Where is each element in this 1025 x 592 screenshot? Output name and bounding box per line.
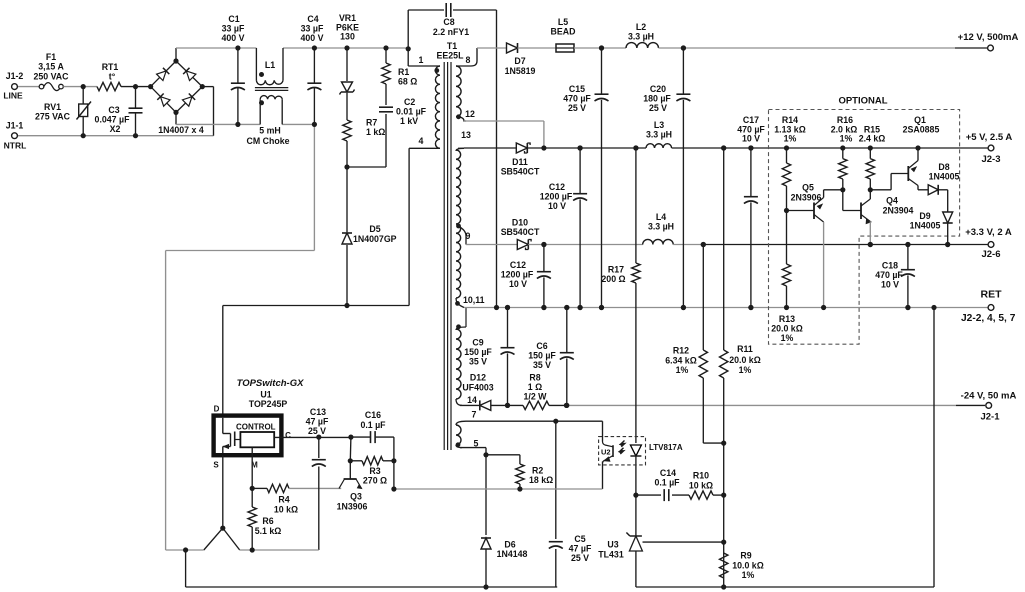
svg-text:R9: R9: [740, 551, 751, 561]
svg-text:D: D: [214, 405, 220, 414]
svg-text:+5 V, 2.5 A: +5 V, 2.5 A: [966, 132, 1013, 143]
svg-text:2N3906: 2N3906: [791, 193, 822, 203]
svg-text:L5: L5: [558, 17, 568, 27]
svg-text:5: 5: [474, 439, 479, 449]
svg-text:1/2 W: 1/2 W: [524, 392, 548, 402]
svg-text:Q4: Q4: [886, 196, 898, 206]
svg-text:35 V: 35 V: [533, 360, 551, 370]
svg-text:1N4007 x 4: 1N4007 x 4: [158, 125, 204, 135]
svg-text:R17: R17: [608, 265, 624, 275]
svg-text:C13: C13: [310, 407, 326, 417]
svg-text:2.2 nFY1: 2.2 nFY1: [433, 27, 469, 37]
svg-text:1: 1: [419, 55, 424, 65]
svg-text:C2: C2: [404, 97, 415, 107]
svg-text:C9: C9: [472, 338, 483, 348]
svg-text:14: 14: [467, 395, 477, 405]
svg-text:1%: 1%: [840, 134, 853, 144]
svg-text:R2: R2: [532, 466, 543, 476]
svg-text:OPTIONAL: OPTIONAL: [838, 96, 887, 107]
svg-text:C17: C17: [743, 115, 759, 125]
svg-text:+3.3 V, 2 A: +3.3 V, 2 A: [965, 227, 1012, 238]
svg-text:35 V: 35 V: [469, 357, 487, 367]
svg-text:10 V: 10 V: [742, 134, 760, 144]
svg-text:C18: C18: [882, 261, 898, 271]
svg-text:1%: 1%: [739, 365, 752, 375]
svg-text:D8: D8: [938, 162, 949, 172]
svg-text:R10: R10: [693, 471, 709, 481]
svg-text:R16: R16: [837, 115, 853, 125]
svg-text:1N3906: 1N3906: [337, 502, 368, 512]
svg-text:C6: C6: [536, 341, 547, 351]
svg-text:R13: R13: [779, 314, 795, 324]
svg-text:0.1 µF: 0.1 µF: [654, 478, 680, 488]
svg-text:U1: U1: [260, 390, 271, 400]
svg-text:10 kΩ: 10 kΩ: [689, 481, 713, 491]
svg-text:0.1 µF: 0.1 µF: [360, 420, 386, 430]
svg-text:C15: C15: [569, 84, 585, 94]
svg-text:Q3: Q3: [350, 492, 362, 502]
svg-text:400 V: 400 V: [301, 33, 324, 43]
svg-text:1 Ω: 1 Ω: [528, 382, 542, 392]
svg-text:NTRL: NTRL: [4, 141, 27, 151]
svg-text:3,15 A: 3,15 A: [38, 62, 64, 72]
svg-text:3.3 µH: 3.3 µH: [628, 32, 654, 42]
svg-text:-24 V, 50 mA: -24 V, 50 mA: [961, 391, 1017, 402]
svg-text:SB540CT: SB540CT: [501, 227, 540, 237]
svg-text:t°: t°: [109, 72, 116, 82]
svg-text:C20: C20: [650, 84, 666, 94]
svg-text:25 V: 25 V: [568, 103, 586, 113]
svg-text:D9: D9: [919, 211, 930, 221]
svg-text:4: 4: [419, 136, 424, 146]
svg-text:LTV817A: LTV817A: [649, 443, 683, 452]
svg-text:10 V: 10 V: [881, 280, 899, 290]
svg-text:R12: R12: [673, 346, 689, 356]
svg-text:C4: C4: [307, 14, 318, 24]
svg-text:1 kV: 1 kV: [400, 116, 418, 126]
svg-text:C8: C8: [443, 17, 454, 27]
svg-text:10 kΩ: 10 kΩ: [274, 505, 298, 515]
svg-text:9: 9: [466, 231, 471, 241]
svg-text:200 Ω: 200 Ω: [601, 274, 625, 284]
svg-text:TOPSwitch-GX: TOPSwitch-GX: [237, 378, 305, 389]
svg-text:33 µF: 33 µF: [301, 24, 324, 34]
svg-text:VR1: VR1: [339, 13, 356, 23]
svg-text:R3: R3: [369, 466, 380, 476]
svg-text:1%: 1%: [676, 365, 689, 375]
svg-text:1%: 1%: [781, 333, 794, 343]
svg-text:+12 V, 500mA: +12 V, 500mA: [958, 32, 1019, 43]
svg-text:20.0 kΩ: 20.0 kΩ: [771, 324, 803, 334]
svg-text:C16: C16: [365, 410, 381, 420]
svg-text:1%: 1%: [742, 570, 755, 580]
svg-text:R7: R7: [366, 118, 377, 128]
svg-text:18 kΩ: 18 kΩ: [529, 475, 553, 485]
svg-text:2N3904: 2N3904: [883, 206, 914, 216]
svg-text:25 V: 25 V: [649, 103, 667, 113]
svg-text:7: 7: [472, 410, 477, 420]
svg-text:3.3 µH: 3.3 µH: [646, 130, 672, 140]
svg-text:C12: C12: [549, 182, 565, 192]
svg-text:250 VAC: 250 VAC: [33, 72, 69, 82]
svg-text:1200 µF: 1200 µF: [501, 270, 534, 280]
svg-text:1 kΩ: 1 kΩ: [366, 127, 385, 137]
svg-text:TOP245P: TOP245P: [249, 399, 288, 409]
svg-text:10 V: 10 V: [509, 279, 527, 289]
svg-text:470 µF: 470 µF: [563, 94, 591, 104]
svg-text:5.1 kΩ: 5.1 kΩ: [255, 526, 282, 536]
svg-text:L3: L3: [654, 120, 664, 130]
svg-text:C1: C1: [228, 14, 239, 24]
svg-text:D12: D12: [470, 373, 486, 383]
svg-text:1N4005: 1N4005: [910, 221, 941, 231]
svg-text:C3: C3: [108, 105, 119, 115]
svg-text:L4: L4: [656, 212, 666, 222]
svg-text:D7: D7: [514, 56, 525, 66]
svg-text:D10: D10: [512, 218, 528, 228]
svg-text:1N4148: 1N4148: [497, 549, 528, 559]
svg-text:5 mH: 5 mH: [259, 126, 281, 136]
svg-text:R4: R4: [278, 495, 289, 505]
svg-text:10 V: 10 V: [548, 201, 566, 211]
svg-text:0.047 µF: 0.047 µF: [95, 115, 131, 125]
svg-text:S: S: [213, 461, 219, 470]
svg-text:C14: C14: [660, 468, 676, 478]
svg-text:6.34 kΩ: 6.34 kΩ: [665, 356, 697, 366]
svg-text:U2: U2: [601, 448, 611, 457]
svg-text:33 µF: 33 µF: [222, 24, 245, 34]
svg-text:J2-3: J2-3: [981, 154, 1000, 165]
svg-text:RET: RET: [981, 289, 1003, 301]
svg-text:CM Choke: CM Choke: [246, 136, 289, 146]
svg-text:1N4005: 1N4005: [929, 172, 960, 182]
svg-text:1200 µF: 1200 µF: [540, 192, 573, 202]
svg-text:25 V: 25 V: [308, 426, 326, 436]
svg-text:D5: D5: [369, 224, 380, 234]
svg-text:Q5: Q5: [802, 183, 814, 193]
svg-text:47 µF: 47 µF: [306, 417, 329, 427]
svg-text:LINE: LINE: [3, 91, 23, 101]
svg-text:12: 12: [465, 109, 475, 119]
svg-text:270 Ω: 270 Ω: [363, 476, 387, 486]
svg-text:L1: L1: [265, 60, 275, 70]
svg-text:1%: 1%: [784, 134, 797, 144]
svg-text:R8: R8: [529, 373, 540, 383]
svg-text:J2-6: J2-6: [981, 249, 1000, 260]
svg-text:D11: D11: [512, 157, 528, 167]
svg-text:2SA0885: 2SA0885: [903, 125, 940, 135]
svg-text:10,11: 10,11: [463, 295, 485, 305]
svg-text:150 µF: 150 µF: [464, 347, 492, 357]
svg-text:RT1: RT1: [102, 62, 119, 72]
svg-text:J2-2, 4, 5, 7: J2-2, 4, 5, 7: [961, 313, 1016, 324]
svg-text:SB540CT: SB540CT: [501, 167, 540, 177]
svg-text:CONTROL: CONTROL: [236, 423, 276, 432]
svg-text:180 µF: 180 µF: [643, 94, 671, 104]
svg-text:L2: L2: [636, 22, 646, 32]
svg-text:68 Ω: 68 Ω: [398, 77, 417, 87]
svg-text:R1: R1: [398, 67, 409, 77]
svg-text:R6: R6: [262, 516, 273, 526]
svg-text:J1-1: J1-1: [6, 121, 24, 131]
svg-text:1N5819: 1N5819: [505, 66, 536, 76]
svg-text:130: 130: [340, 32, 355, 42]
svg-text:150 µF: 150 µF: [528, 351, 556, 361]
svg-text:10.0 kΩ: 10.0 kΩ: [732, 561, 764, 571]
svg-text:3.3 µH: 3.3 µH: [648, 222, 674, 232]
svg-text:D6: D6: [504, 540, 515, 550]
svg-text:U3: U3: [607, 540, 618, 550]
svg-text:275 VAC: 275 VAC: [35, 112, 71, 122]
svg-text:R11: R11: [737, 344, 753, 354]
svg-text:13: 13: [461, 130, 471, 140]
svg-text:400 V: 400 V: [222, 33, 245, 43]
svg-text:X2: X2: [110, 124, 121, 134]
svg-text:T1: T1: [447, 41, 457, 51]
svg-text:20.0 kΩ: 20.0 kΩ: [729, 355, 761, 365]
svg-text:47 µF: 47 µF: [569, 544, 592, 554]
svg-text:BEAD: BEAD: [551, 27, 576, 37]
svg-text:F1: F1: [46, 52, 56, 62]
svg-text:25 V: 25 V: [571, 553, 589, 563]
svg-text:470 µF: 470 µF: [875, 270, 903, 280]
svg-text:1N4007GP: 1N4007GP: [353, 234, 397, 244]
svg-text:2.4 kΩ: 2.4 kΩ: [859, 134, 886, 144]
svg-text:J1-2: J1-2: [6, 71, 24, 81]
svg-text:C12: C12: [510, 260, 526, 270]
svg-text:EE25L: EE25L: [437, 51, 465, 61]
svg-text:UF4003: UF4003: [462, 383, 493, 393]
svg-text:Q1: Q1: [914, 115, 926, 125]
svg-text:RV1: RV1: [44, 102, 61, 112]
svg-text:C5: C5: [574, 534, 585, 544]
svg-text:R14: R14: [782, 115, 798, 125]
svg-text:J2-1: J2-1: [980, 412, 1000, 423]
svg-text:TL431: TL431: [598, 550, 624, 560]
svg-text:0.01 µF: 0.01 µF: [396, 107, 427, 117]
svg-text:8: 8: [466, 55, 471, 65]
svg-text:C: C: [285, 431, 291, 440]
